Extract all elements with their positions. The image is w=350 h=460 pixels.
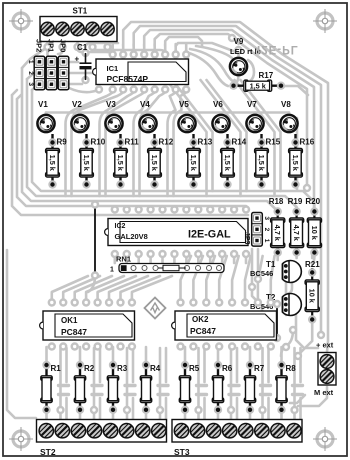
wire: [125, 254, 128, 263]
wire: [185, 254, 188, 263]
wire: [285, 282, 288, 300]
resistor R13 1,5k: [187, 134, 213, 189]
LED V3: [105, 100, 122, 132]
wire: [79, 347, 82, 362]
svg-text:V8: V8: [281, 100, 291, 109]
wire: [173, 254, 176, 263]
svg-text:ST3: ST3: [174, 447, 190, 457]
svg-text:3: 3: [35, 84, 41, 87]
wire: [79, 410, 82, 421]
wire: [197, 384, 207, 387]
svg-text:1: 1: [47, 61, 53, 64]
wire: [221, 254, 224, 263]
wire: [219, 256, 227, 302]
IC2 GAL20V8 (I2E-GAL): [105, 219, 248, 246]
wire: [149, 254, 152, 263]
svg-text:JP3: JP3: [243, 232, 250, 245]
wire: [158, 384, 168, 387]
svg-text:4,7 k: 4,7 k: [292, 225, 301, 242]
wire: [248, 60, 254, 81]
svg-text:+: +: [75, 55, 80, 64]
resistor R6: [212, 361, 232, 414]
svg-text:R20: R20: [305, 197, 320, 206]
svg-text:R5: R5: [189, 364, 200, 373]
wire: [65, 348, 68, 382]
wire: [143, 44, 146, 52]
terminal block K1 (+ext / M ext): [314, 341, 336, 398]
svg-text:R4: R4: [150, 364, 161, 373]
wire: [196, 46, 232, 58]
wire: [261, 384, 271, 387]
wire: [298, 320, 312, 355]
wire jumper (vertical link): [91, 200, 99, 279]
wire: [184, 410, 187, 421]
capacitor C1: [75, 43, 92, 80]
wire: [75, 276, 112, 302]
svg-text:R9: R9: [57, 138, 68, 147]
wire: [181, 256, 192, 302]
wire: [201, 80, 241, 196]
wire: [257, 249, 260, 277]
jumper JP3: [243, 213, 270, 247]
wire: [132, 44, 135, 52]
wire: [32, 86, 40, 91]
wire: [45, 113, 48, 119]
svg-text:I2E-PL: I2E-PL: [257, 43, 299, 55]
wire: [22, 68, 278, 211]
wire: [112, 410, 115, 421]
wire: [45, 347, 48, 362]
svg-text:R16: R16: [300, 138, 315, 147]
resistor R5: [179, 361, 199, 414]
wire: [280, 347, 283, 362]
wire: [241, 80, 281, 191]
wire: [281, 330, 293, 356]
wire: [254, 113, 257, 119]
wire: [184, 347, 187, 362]
svg-text:ST1: ST1: [73, 7, 88, 16]
wire: [140, 92, 166, 196]
wire: [207, 80, 247, 191]
svg-text:R18: R18: [269, 197, 284, 206]
wire: [153, 44, 156, 52]
wire: [122, 44, 125, 52]
resistor R16 1,5k: [289, 134, 315, 189]
wire: [12, 95, 248, 215]
resistor R4: [140, 361, 160, 414]
wire: [197, 254, 200, 263]
jumper JP1: [46, 39, 57, 90]
svg-text:3: 3: [263, 216, 270, 220]
svg-text:2: 2: [263, 228, 270, 232]
wire: [271, 256, 275, 302]
IC1 pads: [109, 50, 191, 93]
svg-text:RN1: RN1: [116, 255, 131, 264]
wire: [186, 52, 228, 86]
svg-text:2: 2: [35, 72, 41, 75]
wire: [203, 348, 206, 382]
resistor R21 10k: [305, 260, 320, 324]
wire: [46, 111, 289, 114]
optocoupler OK2 PC847: [172, 311, 277, 340]
jumper row numbers: [27, 60, 34, 86]
mounting hole H1: [9, 9, 33, 33]
svg-text:V1: V1: [38, 100, 48, 109]
resistor R7: [244, 361, 264, 414]
svg-text:V4: V4: [140, 100, 150, 109]
wire: [209, 254, 212, 263]
svg-text:R12: R12: [159, 138, 174, 147]
wire: [125, 393, 135, 396]
wire: [252, 289, 262, 314]
wire: [197, 393, 207, 396]
svg-text:R6: R6: [222, 364, 233, 373]
svg-text:1,5 k: 1,5 k: [150, 155, 159, 172]
svg-text:R11: R11: [125, 138, 140, 147]
resistor R17 1,5k: [229, 71, 285, 91]
LED V7: [246, 100, 263, 132]
wire: [65, 398, 68, 421]
svg-text:R3: R3: [117, 364, 128, 373]
wire: [98, 276, 136, 302]
wire: [206, 256, 215, 302]
wire: [111, 44, 114, 52]
svg-text:1: 1: [263, 239, 270, 243]
resistor R19 4,7 k: [288, 197, 304, 257]
resistor R9 1,5k: [46, 134, 68, 189]
wire: [220, 113, 223, 119]
svg-text:3: 3: [47, 84, 53, 87]
svg-text:M ext: M ext: [314, 388, 334, 397]
wire: [17, 95, 21, 99]
wire: [114, 254, 117, 263]
wire: [155, 34, 307, 188]
wire: [134, 92, 155, 196]
wire: [59, 348, 62, 421]
svg-text:R19: R19: [288, 197, 303, 206]
wire: [293, 384, 303, 387]
wire: [168, 92, 176, 196]
svg-text:T1: T1: [266, 260, 276, 269]
svg-text:R8: R8: [286, 364, 297, 373]
svg-text:1,5 k: 1,5 k: [189, 155, 198, 172]
wire: [45, 410, 48, 421]
wire: [72, 92, 124, 196]
wire: [164, 44, 167, 52]
wire: [165, 37, 202, 46]
wire: [290, 395, 305, 403]
wire: [293, 393, 303, 396]
wire: [296, 118, 299, 190]
svg-text:JP0: JP0: [59, 39, 68, 52]
svg-text:V3: V3: [106, 100, 116, 109]
svg-text:JP1: JP1: [47, 39, 56, 52]
resistor R1: [41, 361, 61, 414]
resistor R12 1,5k: [148, 134, 174, 189]
wire: [125, 384, 135, 387]
wire: [217, 410, 220, 421]
svg-text:1,5 k: 1,5 k: [116, 155, 125, 172]
LED V9 (LED rt lc): [230, 37, 261, 75]
wire: [66, 92, 113, 196]
wire: [106, 42, 109, 47]
wire: [285, 300, 288, 315]
wire: [295, 253, 298, 258]
svg-text:PC847: PC847: [61, 327, 87, 337]
svg-text:1,5 k: 1,5 k: [223, 155, 232, 172]
wire: [58, 42, 63, 54]
wire: [251, 249, 254, 285]
resistor R14 1,5k: [221, 134, 247, 189]
wire: [93, 42, 166, 54]
wire: [63, 276, 100, 302]
wire: [69, 72, 92, 75]
wire: [161, 254, 164, 263]
wire: [245, 254, 248, 263]
wire: [144, 30, 314, 208]
wire: [174, 92, 187, 196]
wire: [230, 348, 233, 421]
wire: [69, 83, 82, 86]
wire: [158, 393, 168, 396]
terminal block ST1: [40, 7, 117, 42]
wire: [237, 50, 240, 58]
wire: [173, 80, 213, 191]
wire: [121, 276, 161, 302]
wire: [293, 348, 296, 421]
wire: [235, 75, 239, 85]
svg-text:4,7 k: 4,7 k: [273, 225, 282, 242]
wire: [176, 43, 236, 52]
svg-text:JP2: JP2: [35, 39, 44, 52]
wire: [296, 312, 318, 348]
wire: [132, 348, 135, 382]
wire: [232, 38, 239, 44]
wire: [12, 90, 17, 95]
resistor R8: [276, 361, 296, 414]
wire: [69, 88, 99, 92]
wire: [190, 49, 234, 82]
terminal block ST2: [37, 420, 167, 458]
wire: [88, 276, 95, 292]
wire: [92, 393, 102, 396]
wire: [100, 92, 134, 196]
wire: [203, 398, 206, 421]
resistor R10 1,5k: [80, 134, 106, 189]
svg-text:OK2: OK2: [192, 315, 209, 324]
wire: [145, 410, 148, 421]
wire: [267, 398, 270, 421]
wire: [132, 398, 135, 421]
svg-text:1,5 k: 1,5 k: [257, 155, 266, 172]
wire: [137, 254, 140, 263]
wire: [312, 245, 321, 258]
wire: [126, 348, 129, 421]
wire: [174, 44, 177, 52]
svg-text:1,5 k: 1,5 k: [82, 155, 91, 172]
wire: [52, 276, 88, 302]
svg-text:3: 3: [27, 82, 34, 86]
wire: [229, 393, 239, 396]
wire: [46, 42, 49, 56]
wire: [22, 47, 48, 68]
svg-text:V6: V6: [213, 100, 223, 109]
LED V2: [71, 100, 88, 132]
resistor R2: [74, 361, 94, 414]
transistor T2 BC546: [250, 293, 301, 316]
resistor R11 1,5k: [114, 134, 140, 189]
board name text I2E-PL (mirrored): [257, 43, 299, 55]
svg-text:V5: V5: [179, 100, 189, 109]
svg-text:V2: V2: [72, 100, 82, 109]
wire: [59, 384, 69, 387]
wire: [258, 256, 263, 302]
wire: [112, 347, 115, 362]
mounting hole H2: [313, 9, 337, 33]
svg-text:R2: R2: [84, 364, 95, 373]
mounting hole H4: [313, 427, 337, 451]
wire: [69, 61, 78, 64]
wire: [92, 384, 102, 387]
wire: [236, 348, 239, 382]
wire: [185, 44, 188, 52]
wire: [261, 393, 271, 396]
svg-text:PCF8574P: PCF8574P: [107, 74, 149, 84]
wire: [298, 387, 327, 406]
wire: [78, 42, 113, 55]
svg-text:R17: R17: [259, 71, 274, 80]
wire: [229, 384, 239, 387]
wire: [276, 253, 279, 260]
svg-text:1: 1: [35, 61, 41, 64]
wire: [123, 22, 328, 352]
wire: [245, 256, 251, 302]
LED V1: [37, 100, 54, 132]
LED V4: [139, 100, 156, 132]
svg-text:1,5 k: 1,5 k: [250, 82, 267, 91]
svg-text:IC1: IC1: [107, 64, 119, 73]
LED V5: [178, 100, 195, 132]
transistor T1 BC546: [250, 260, 301, 283]
wire: [165, 398, 168, 421]
svg-text:10 k: 10 k: [308, 289, 317, 304]
wire: [99, 398, 102, 421]
svg-text:1: 1: [27, 60, 34, 64]
svg-text:2: 2: [47, 72, 53, 75]
wire: [280, 410, 283, 421]
wire: [232, 256, 239, 302]
optocoupler OK1 PC847: [40, 311, 135, 340]
wire: [99, 348, 102, 382]
wire: [134, 26, 321, 335]
wire: [193, 256, 203, 302]
resistor R15 1,5k: [255, 134, 281, 189]
svg-text:R1: R1: [51, 364, 62, 373]
svg-text:ST2: ST2: [40, 447, 56, 457]
resistor R20 10 k: [305, 197, 321, 257]
svg-text:V9: V9: [234, 37, 244, 46]
wire: [159, 348, 162, 421]
wire jumper (vertical link right): [273, 300, 281, 342]
svg-text:V7: V7: [247, 100, 257, 109]
jumper JP2: [34, 39, 45, 90]
wire: [17, 99, 246, 206]
svg-text:1,5 k: 1,5 k: [291, 155, 300, 172]
svg-text:IC2: IC2: [115, 223, 126, 230]
svg-text:1,5 k: 1,5 k: [48, 155, 57, 172]
wire: [233, 254, 236, 263]
jumper JP0: [58, 39, 69, 90]
wire: [106, 92, 145, 196]
svg-text:R21: R21: [305, 260, 320, 269]
svg-text:I2E-GAL: I2E-GAL: [188, 229, 231, 241]
svg-text:R13: R13: [198, 138, 213, 147]
wire: [93, 348, 96, 421]
diamond logo: [145, 298, 166, 319]
LED V6: [212, 100, 229, 132]
IC1 PCF8574P I/O expander: [93, 59, 189, 85]
svg-text:C1: C1: [77, 43, 88, 52]
wire: [32, 90, 314, 211]
resistor R18 4,7 k: [269, 197, 285, 257]
svg-text:BC546: BC546: [250, 269, 273, 278]
svg-text:R10: R10: [91, 138, 106, 147]
wire: [132, 276, 172, 302]
wire: [86, 276, 124, 302]
svg-text:1: 1: [110, 267, 114, 274]
svg-text:GAL20V8: GAL20V8: [115, 232, 148, 241]
LED V8: [280, 100, 297, 132]
wire: [197, 348, 200, 421]
svg-text:OK1: OK1: [61, 316, 78, 325]
wire: [249, 410, 252, 421]
wire: [59, 393, 69, 396]
wire: [145, 347, 148, 362]
wire: [167, 80, 207, 196]
wire: [261, 348, 264, 421]
OK2 pads: [176, 298, 275, 350]
mounting hole H3: [9, 427, 33, 451]
wire: [267, 348, 270, 382]
wire: [27, 79, 297, 211]
resistor R3: [107, 361, 127, 414]
OK1 pads: [48, 298, 137, 350]
svg-text:10 k: 10 k: [310, 226, 319, 241]
svg-text:2: 2: [27, 71, 34, 75]
wire: [27, 74, 34, 79]
wire: [283, 86, 308, 95]
terminal block ST3: [172, 420, 302, 458]
wire: [7, 250, 36, 418]
wire: [235, 80, 275, 196]
wire: [249, 347, 252, 362]
wire: [113, 113, 116, 119]
svg-text:R14: R14: [232, 138, 247, 147]
svg-text:PC847: PC847: [190, 326, 216, 336]
wire: [217, 347, 220, 362]
svg-text:+ ext: + ext: [316, 341, 334, 350]
wire: [312, 253, 314, 264]
wire: [288, 113, 291, 119]
jumper in-cell pin digits: [35, 61, 53, 86]
wire: [109, 276, 148, 302]
wire: [86, 43, 119, 53]
wire: [236, 398, 239, 421]
wire: [147, 113, 150, 119]
wire: [299, 398, 302, 421]
wire: [299, 348, 302, 382]
ST1 pads: [43, 43, 111, 51]
